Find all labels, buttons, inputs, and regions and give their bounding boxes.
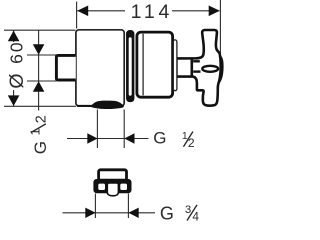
stem end cap line [191,59,194,77]
dimension G1/2 side: vertical line [38,30,40,110]
dimension G1/2 side arrow up [33,81,45,92]
hose fitting nut [93,179,131,193]
svg-text:2: 2 [188,136,195,150]
dimension O60 extension line top [4,29,76,31]
neck bottom line [193,70,200,72]
svg-text:G: G [153,129,166,148]
bottom G1/2 tick right [123,110,125,149]
dimension 114 line right segment [172,10,220,12]
nut right window [120,184,127,190]
dimension G1/2 side arrow down [33,44,45,55]
dimension 114 extension line right [219,0,221,54]
outlet nub G1/2 [56,55,75,80]
svg-text:G: G [31,141,50,154]
handle right bar thickening [219,54,224,85]
collar [137,32,173,97]
dimension O60 line lower segment [13,90,15,106]
dimension G1/2 side extension line top [27,54,57,56]
dimension G1/2 side extension line bottom [27,80,57,82]
G3/4 dimension line [63,212,156,214]
svg-text:114: 114 [131,1,174,23]
svg-text:60: 60 [6,40,26,63]
bottom G1/2 tick left [96,110,98,149]
dimension O60 arrow up [8,31,20,42]
dimension 114 arrow right [209,6,220,17]
bonnet cap edge [173,40,177,91]
valve escutcheon body [76,30,124,106]
dimension 114 extension line left [76,2,78,29]
bottom port lens [91,101,124,109]
dimension O60 line upper segment [13,31,15,43]
nut middle window + nipple bump [107,183,118,196]
G3/4 arrow left-pointing [128,208,138,218]
dimension O60 extension line bottom [4,105,76,107]
ring behind escutcheon [126,30,134,102]
bottom G1/2 arrow right-pointing [87,133,97,143]
bottom G1/2 dimension line [67,138,149,140]
ring slot [129,37,132,95]
stem and handle silhouette [176,30,220,106]
hose fitting top section [99,170,127,180]
svg-text:2: 2 [34,115,50,123]
nut left window [98,184,105,190]
G3/4 tick right [127,194,129,219]
handle front arm ellipse [202,66,218,72]
G3/4 tick left [94,194,96,219]
dimension O60 arrow down [8,95,20,106]
G3/4 arrow right-pointing [85,208,95,218]
svg-text:Ø: Ø [6,73,28,88]
dimension 114 arrow left [77,6,88,17]
neck top line [193,60,200,62]
svg-text:G: G [160,203,174,223]
collar inner line [142,34,144,96]
dimension 114 line left segment [77,10,125,12]
escutcheon bottom thick edge [77,105,124,107]
svg-text:4: 4 [192,210,199,224]
bottom G1/2 arrow left-pointing [124,133,134,143]
